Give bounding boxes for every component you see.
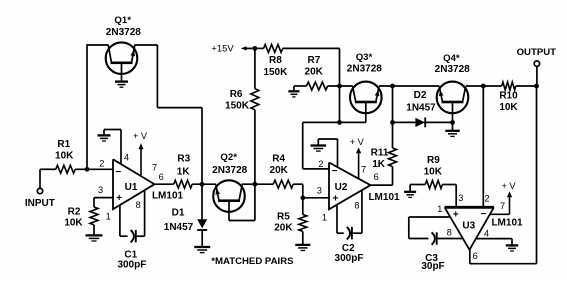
svg-text:D2: D2 — [414, 90, 427, 101]
svg-text:R8: R8 — [269, 55, 282, 66]
svg-text:−: − — [332, 166, 338, 177]
svg-text:20K: 20K — [305, 66, 324, 77]
svg-text:Q1*: Q1* — [114, 15, 131, 26]
svg-text:20K: 20K — [270, 165, 289, 176]
svg-text:U2: U2 — [335, 182, 348, 193]
svg-text:U3: U3 — [462, 220, 475, 231]
svg-text:1K: 1K — [177, 166, 191, 177]
svg-text:1: 1 — [322, 212, 327, 222]
svg-text:R1: R1 — [57, 139, 70, 150]
svg-text:2: 2 — [484, 194, 489, 204]
svg-text:−: − — [481, 209, 487, 220]
svg-text:R7: R7 — [308, 55, 321, 66]
svg-text:OUTPUT: OUTPUT — [517, 47, 557, 58]
svg-text:+: + — [453, 209, 459, 220]
svg-text:R3: R3 — [177, 154, 190, 165]
svg-text:2: 2 — [318, 159, 323, 169]
svg-text:2N3728: 2N3728 — [212, 165, 247, 176]
svg-text:Q3*: Q3* — [356, 52, 373, 63]
svg-text:4: 4 — [484, 228, 489, 238]
svg-text:3: 3 — [317, 185, 322, 195]
svg-text:Q4*: Q4* — [443, 53, 460, 64]
svg-text:8: 8 — [136, 200, 141, 210]
svg-text:6: 6 — [159, 172, 164, 182]
svg-text:1: 1 — [106, 211, 111, 221]
svg-text:7: 7 — [361, 165, 366, 175]
svg-text:2N3728: 2N3728 — [435, 64, 470, 75]
svg-text:10K: 10K — [499, 102, 518, 113]
svg-text:3: 3 — [458, 193, 463, 203]
svg-text:10K: 10K — [424, 166, 443, 177]
svg-text:Q2*: Q2* — [220, 152, 237, 163]
svg-text:30pF: 30pF — [421, 261, 444, 272]
svg-text:D1: D1 — [172, 208, 185, 219]
svg-text:6: 6 — [473, 251, 478, 261]
svg-text:+ V: + V — [501, 181, 516, 191]
svg-text:R5: R5 — [277, 212, 290, 223]
svg-text:R9: R9 — [427, 155, 440, 166]
svg-text:8: 8 — [354, 201, 359, 211]
svg-text:3: 3 — [98, 185, 103, 195]
svg-text:+15V: +15V — [211, 43, 234, 54]
svg-text:INPUT: INPUT — [25, 198, 55, 209]
svg-text:8: 8 — [447, 228, 452, 238]
svg-text:6: 6 — [374, 172, 379, 182]
svg-text:2N3728: 2N3728 — [347, 64, 382, 75]
svg-text:7: 7 — [152, 162, 157, 172]
svg-text:1N457: 1N457 — [164, 222, 194, 233]
svg-text:−: − — [115, 167, 121, 178]
svg-text:R6: R6 — [230, 89, 243, 100]
svg-text:7: 7 — [500, 201, 505, 211]
svg-text:R10: R10 — [499, 91, 518, 102]
svg-text:R4: R4 — [272, 154, 285, 165]
svg-text:1: 1 — [437, 204, 442, 214]
svg-text:150K: 150K — [225, 100, 250, 111]
svg-text:300pF: 300pF — [117, 260, 146, 271]
svg-text:10K: 10K — [55, 151, 74, 162]
svg-text:LM101: LM101 — [491, 217, 523, 228]
svg-text:1N457: 1N457 — [406, 103, 436, 114]
svg-text:U1: U1 — [125, 182, 138, 193]
svg-text:300pF: 300pF — [335, 253, 364, 264]
svg-text:2N3728: 2N3728 — [106, 27, 141, 38]
svg-text:+: + — [332, 193, 338, 204]
svg-text:+ V: + V — [133, 131, 148, 141]
svg-text:2: 2 — [99, 158, 104, 168]
svg-text:+: + — [116, 193, 122, 204]
svg-text:R2: R2 — [68, 207, 81, 218]
svg-text:1K: 1K — [372, 159, 386, 170]
svg-text:LM101: LM101 — [152, 190, 184, 201]
svg-text:+ V: + V — [350, 137, 365, 147]
svg-text:20K: 20K — [274, 223, 293, 234]
svg-text:LM101: LM101 — [368, 192, 400, 203]
svg-text:150K: 150K — [263, 67, 288, 78]
svg-text:*MATCHED PAIRS: *MATCHED PAIRS — [211, 256, 294, 267]
svg-text:10K: 10K — [64, 217, 83, 228]
svg-text:R11: R11 — [371, 148, 389, 159]
svg-text:4: 4 — [124, 152, 129, 162]
